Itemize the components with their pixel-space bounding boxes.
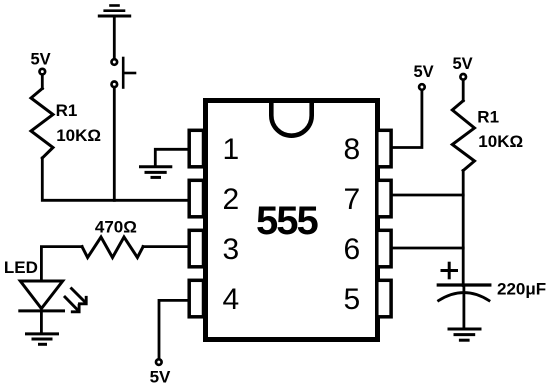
svg-text:220μF: 220μF [497,280,546,299]
svg-text:6: 6 [344,233,361,266]
svg-text:5V: 5V [150,367,171,386]
svg-text:10KΩ: 10KΩ [56,126,101,145]
svg-text:R1: R1 [56,101,78,120]
svg-text:5V: 5V [453,55,473,73]
svg-text:8: 8 [344,133,361,166]
svg-text:3: 3 [223,233,240,266]
svg-text:470Ω: 470Ω [95,218,137,237]
svg-text:1: 1 [223,133,240,166]
svg-text:4: 4 [223,283,240,316]
svg-text:R1: R1 [477,108,499,127]
svg-text:555: 555 [256,199,318,243]
svg-text:LED: LED [4,258,38,277]
svg-text:2: 2 [223,183,240,216]
svg-text:5V: 5V [31,51,51,69]
svg-text:5: 5 [344,283,361,316]
svg-text:10KΩ: 10KΩ [478,132,523,151]
svg-text:7: 7 [344,183,361,216]
svg-text:5V: 5V [414,63,434,81]
